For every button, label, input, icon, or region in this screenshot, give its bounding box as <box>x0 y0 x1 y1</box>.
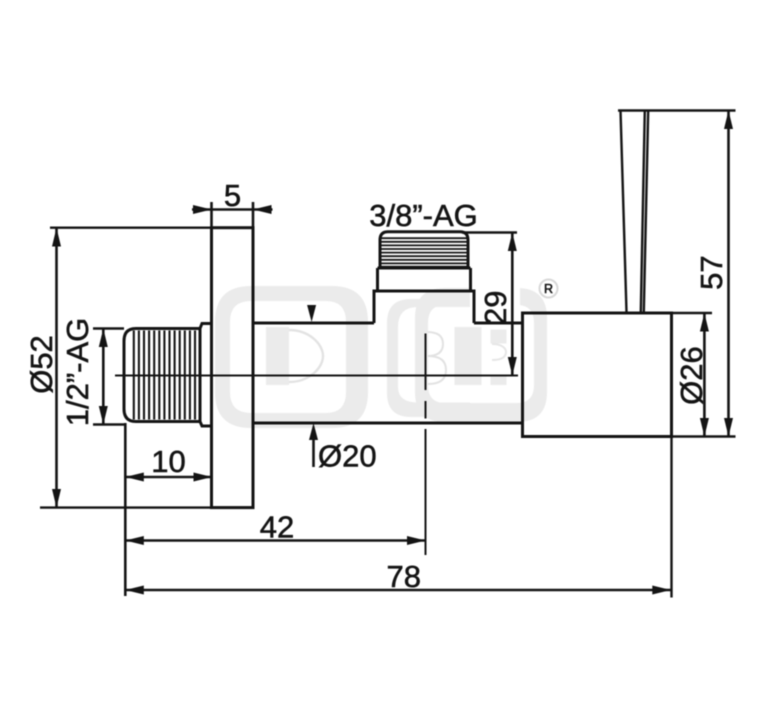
dimension 57 <box>694 111 733 437</box>
watermark logo glyph 3 ring <box>415 288 547 422</box>
lever handle <box>621 111 649 313</box>
watermark registered trademark symbol <box>540 280 558 298</box>
watermark logo glyph 1 ring <box>215 286 368 428</box>
vertical center line dashed <box>425 334 427 556</box>
svg-text:Ø26: Ø26 <box>674 346 709 405</box>
svg-text:10: 10 <box>151 444 185 479</box>
dimension 1/2"-AG <box>60 318 125 427</box>
watermark glyph 1 inner D bar <box>266 327 323 385</box>
svg-text:1/2”-AG: 1/2”-AG <box>60 318 95 427</box>
pipe top edge left <box>253 322 374 325</box>
extension line body right edge down <box>670 437 672 598</box>
threaded connector 1/2" outline <box>124 329 200 422</box>
svg-text:29: 29 <box>478 291 513 325</box>
svg-text:78: 78 <box>386 559 420 594</box>
svg-text:Ø20: Ø20 <box>318 439 377 474</box>
wall plate <box>212 228 254 508</box>
pipe bottom edge <box>253 422 523 425</box>
valve body <box>523 313 672 437</box>
pipe top edge right <box>474 322 523 325</box>
dimension 29 <box>462 233 517 376</box>
dimension 5 <box>192 178 273 228</box>
dimension Ø20 <box>307 305 377 474</box>
lever top edge + 57 top extension <box>618 109 736 112</box>
horizontal center line <box>115 375 518 377</box>
threaded connector 3/8" outline <box>380 232 468 268</box>
extension line body bottom right <box>672 435 736 437</box>
watermark glyph 2 thin letter B <box>415 332 446 384</box>
dimension 78 <box>125 559 671 595</box>
svg-text:3/8”-AG: 3/8”-AG <box>369 198 478 233</box>
3/8 connector shoulder <box>374 291 474 323</box>
3/8 connector base <box>378 268 471 291</box>
extension line plate top (Ø52 top) <box>50 226 212 228</box>
svg-text:R: R <box>544 282 553 296</box>
thread hatch 1/2" <box>134 331 195 420</box>
svg-text:57: 57 <box>694 255 729 289</box>
watermark glyph 3 inner letter <box>455 327 507 385</box>
svg-text:Ø52: Ø52 <box>24 335 59 394</box>
extension line plate bottom (Ø52 bottom) <box>40 506 253 508</box>
dimension 42 <box>125 510 425 546</box>
watermark logo glyph 2 ring <box>387 299 470 417</box>
thread hatch 3/8" <box>382 238 467 266</box>
white box behind 29 label <box>470 283 520 326</box>
dimension Ø52 <box>24 228 61 508</box>
extension line body top right (Ø26 top) <box>672 312 713 314</box>
svg-text:5: 5 <box>224 178 241 213</box>
dimension Ø26 <box>674 313 709 437</box>
svg-text:42: 42 <box>260 510 294 545</box>
dimension 10 <box>125 423 212 596</box>
collar behind 1/2" thread <box>200 324 212 427</box>
